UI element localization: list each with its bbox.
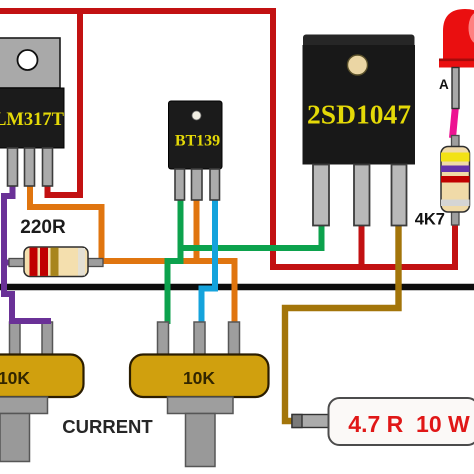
resistor R1 220R (horizontal) xyxy=(9,217,103,277)
svg-text:BT139: BT139 xyxy=(175,133,220,150)
Q2 pin 1 xyxy=(313,165,329,226)
D1 flange xyxy=(439,59,474,68)
U1 pin 3 xyxy=(43,148,53,186)
Q1 dot marker xyxy=(192,111,201,120)
potentiometer VR2 10K (current) xyxy=(130,322,269,467)
Q1 pin 1 xyxy=(175,169,185,200)
VR2 bushing xyxy=(168,397,234,414)
VR1 bushing xyxy=(0,397,48,414)
VR1 pin 2 xyxy=(10,322,21,356)
LED D1 (red, clipped at right edge) xyxy=(439,9,474,109)
VR1 pin 3 xyxy=(42,322,53,356)
wire: red V+ rail from left edge along top, down at right, to lower node row xyxy=(0,11,455,267)
wire: green from BT139 pin 1 down to pot VR2 pin 1 xyxy=(168,198,181,324)
Q1 pin 3 xyxy=(210,169,220,200)
svg-text:4.7 R 10 W: 4.7 R 10 W xyxy=(348,411,470,437)
VR1 shaft xyxy=(0,414,30,462)
wire: purple stub to 220R left lead (node) xyxy=(3,260,14,266)
R2 band violet xyxy=(441,166,470,173)
wire: blue from BT139 pin 3 down to pot VR2 pin 2 xyxy=(202,198,216,324)
R2 body xyxy=(441,147,470,213)
svg-text:LM317T: LM317T xyxy=(0,110,65,130)
VR2 body xyxy=(130,355,269,398)
Q2 pin 2 xyxy=(354,165,370,226)
Q2 pin 3 xyxy=(392,165,407,226)
R1 body xyxy=(24,247,88,277)
R1 right lead xyxy=(86,259,103,267)
R3 body xyxy=(329,398,474,445)
D1 dome xyxy=(443,9,474,59)
VR2 pin 1 xyxy=(158,322,169,356)
VR1 body xyxy=(0,355,84,398)
R1 end sheen xyxy=(78,248,85,276)
triac Q1 BT139 xyxy=(169,101,223,200)
U1 metal tab xyxy=(0,38,60,88)
U1 mounting hole xyxy=(18,50,38,70)
U1 pin 1 xyxy=(8,148,18,186)
U1 pin 2 xyxy=(25,148,35,186)
D1 dome highlight xyxy=(469,12,474,44)
R1 band brown xyxy=(51,248,59,276)
R2 band yellow xyxy=(441,153,470,162)
ground bus wire (black horizontal rail) xyxy=(0,284,474,290)
R2 bottom lead xyxy=(452,211,460,225)
resistor R2 4K7 (vertical) xyxy=(415,136,470,229)
resistor R3 4.7R 10W (power resistor, clipped at right edge) xyxy=(292,398,474,445)
svg-text:10K: 10K xyxy=(0,368,30,388)
wire: purple from LM317 pin 1 down left edge to pot VR1 pins xyxy=(4,184,48,321)
U1 body xyxy=(0,88,64,148)
VR2 pin 2 xyxy=(194,322,205,356)
D1 anode leg xyxy=(452,68,459,109)
svg-text:2SD1047: 2SD1047 xyxy=(307,99,411,130)
wire: pink from LED anode leg to 4K7 top lead xyxy=(453,106,456,138)
svg-text:CURRENT: CURRENT xyxy=(62,416,153,437)
Q2 body xyxy=(303,45,416,165)
R2 band red xyxy=(441,176,470,183)
R1 left lead xyxy=(9,259,25,267)
svg-text:220R: 220R xyxy=(20,217,66,238)
Q1 body xyxy=(169,101,223,169)
wire: red segment from 2SD1047 pin 2 down to red node row xyxy=(359,223,365,266)
R2 top lead xyxy=(452,136,460,148)
potentiometer VR1 10K (voltage, clipped at left edge) xyxy=(0,322,84,462)
svg-text:4K7: 4K7 xyxy=(415,211,445,229)
svg-text:10K: 10K xyxy=(183,368,215,388)
svg-text:A: A xyxy=(439,77,449,92)
wire: red loop from LM317 pin 3 up to top rail xyxy=(48,11,81,195)
transistor Q2 2SD1047 (TO-3P) xyxy=(303,35,416,226)
VR2 shaft xyxy=(186,414,216,467)
wire: green from 2SD1047 pin 1 left to BT139 pin 1 junction xyxy=(181,224,322,248)
R3 lead xyxy=(292,415,331,428)
R1 band red 1 xyxy=(30,248,38,276)
Q2 mounting hole xyxy=(348,55,368,75)
wire: orange drop from BT139 pin 2 to orange net junction xyxy=(194,198,200,261)
wire: purple overlay across pot VR1 pin tops xyxy=(9,318,51,324)
VR2 pin 3 xyxy=(229,322,240,356)
R1 band red 2 xyxy=(40,248,48,276)
wire: brown from 2SD1047 pin 3 down and left to 4.7R lead xyxy=(285,223,399,421)
Q2 top face xyxy=(303,35,415,49)
wire: orange from LM317 pin 2 via 220R right lead to pot VR2 pin 3 xyxy=(30,184,235,324)
Q1 pin 2 xyxy=(192,169,203,200)
regulator U1 LM317T (TO-220, clipped at left edge) xyxy=(0,38,65,186)
R2 band silver xyxy=(441,200,470,207)
